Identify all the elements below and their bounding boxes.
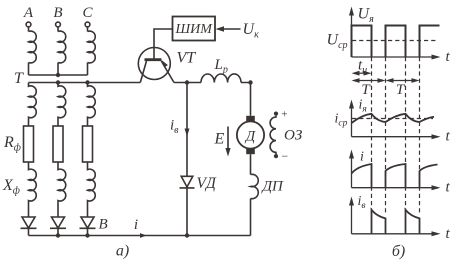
resistor Rf phase C xyxy=(83,126,93,162)
wire terminal B to primary winding xyxy=(57,27,59,32)
label Uk xyxy=(243,21,260,41)
inductor Lp xyxy=(201,74,241,83)
svg-text:В: В xyxy=(99,216,108,232)
svg-text:iв: iв xyxy=(358,194,366,211)
transistor VT xyxy=(138,48,174,83)
plot1 t label xyxy=(446,49,451,65)
svg-text:T: T xyxy=(396,82,406,98)
plot2 horizontal axis arrow xyxy=(432,134,441,139)
transformer T primary winding phase C xyxy=(88,31,96,63)
wire secondary bus to transistor xyxy=(29,82,141,84)
svg-text:Uср: Uср xyxy=(327,32,348,52)
plot3 horizontal axis xyxy=(352,187,435,189)
period T measure arrow 1 xyxy=(352,78,386,83)
plot2 vertical axis arrow xyxy=(349,100,354,109)
plot1 Uya axis label xyxy=(358,6,375,26)
node A label xyxy=(23,5,34,21)
plot1 horizontal axis t xyxy=(352,56,435,58)
svg-text:i: i xyxy=(360,150,364,165)
svg-text:Uк: Uк xyxy=(243,21,260,41)
terminal B xyxy=(56,22,61,27)
svg-text:Д: Д xyxy=(244,129,256,145)
wire terminal A to primary winding xyxy=(28,27,30,32)
svg-text:Uя: Uя xyxy=(358,6,375,26)
label VD xyxy=(197,175,217,192)
plot1 Usr dashed level xyxy=(352,40,436,42)
field winding OZ plus terminal xyxy=(274,109,288,121)
inductor Xf label xyxy=(2,177,20,197)
svg-text:t: t xyxy=(446,49,451,65)
wire Lp to motor xyxy=(241,83,251,116)
transformer T secondary winding phase B xyxy=(58,83,66,127)
plot3 current pulse 3 xyxy=(420,165,438,188)
terminal A xyxy=(26,22,31,27)
svg-text:T: T xyxy=(361,82,371,98)
control input Uk arrow xyxy=(216,26,241,32)
rectifier B label xyxy=(99,216,108,232)
plot1 square wave xyxy=(352,26,440,58)
plot2 iya axis label xyxy=(359,98,367,115)
label b) xyxy=(392,243,405,260)
junction primary bus phase B xyxy=(56,73,60,77)
junction freewheel node xyxy=(185,80,189,84)
plot3 i axis label xyxy=(360,150,364,165)
plot1 vertical axis xyxy=(351,13,353,57)
transformer T label xyxy=(14,70,24,87)
svg-text:а): а) xyxy=(116,243,129,260)
inductor Xf phase A xyxy=(29,162,37,217)
transformer T primary winding phase A xyxy=(29,31,37,63)
plot4 iv axis label xyxy=(358,194,366,211)
plot4 vertical axis xyxy=(351,203,353,234)
plot1 vertical axis arrow xyxy=(349,7,354,16)
svg-text:iв: iв xyxy=(170,118,179,137)
rectifier diode phase B xyxy=(50,217,66,236)
motor D top brush xyxy=(246,116,255,122)
node C label xyxy=(82,5,93,21)
label OZ xyxy=(284,128,303,144)
ti measure arrows xyxy=(352,71,372,76)
label a) xyxy=(116,243,129,260)
rectifier diode phase A xyxy=(21,217,37,236)
plot3 current pulse 1 xyxy=(352,164,372,188)
commutating winding DP xyxy=(251,174,259,198)
svg-text:VД: VД xyxy=(197,175,217,192)
wire transistor emitter to motor branch xyxy=(174,82,201,84)
wire PWM box to transistor base xyxy=(154,29,173,59)
transformer T secondary winding phase A xyxy=(29,83,37,127)
plot1 horizontal axis arrow xyxy=(432,55,441,60)
resistor Rf label xyxy=(3,134,21,154)
plot3 vertical axis xyxy=(351,156,353,188)
wire bottom bus xyxy=(29,235,251,237)
period T measure arrow 2 xyxy=(386,78,420,83)
wire DP to bottom bus xyxy=(250,199,252,236)
svg-text:t: t xyxy=(446,226,451,242)
plot4 horizontal axis xyxy=(352,233,435,235)
inductor Xf phase B xyxy=(58,162,66,217)
svg-text:VT: VT xyxy=(177,50,197,67)
label isr xyxy=(335,111,348,128)
label Usr xyxy=(327,32,348,52)
junction motor branch top xyxy=(248,80,252,84)
svg-text:t: t xyxy=(446,129,451,145)
PWM controller box ШИМ xyxy=(173,17,216,41)
svg-text:T: T xyxy=(14,70,24,87)
plot2 isr dashed level xyxy=(352,118,433,120)
plot3 t label xyxy=(446,180,451,196)
plot4 vertical axis arrow xyxy=(349,197,354,206)
label DP xyxy=(261,179,285,195)
dashed timing line 3 xyxy=(405,57,407,213)
plot2 horizontal axis xyxy=(352,136,435,138)
wire primary A to star bus xyxy=(28,63,30,76)
svg-text:б): б) xyxy=(392,243,405,260)
wire motor to DP winding xyxy=(250,154,252,174)
junction bottom bus phase C xyxy=(85,233,89,237)
resistor Rf phase B xyxy=(53,126,63,162)
transformer T primary winding phase B xyxy=(58,31,66,63)
field winding OZ xyxy=(270,116,276,154)
junction secondary bus phase B xyxy=(56,80,60,84)
node B label xyxy=(53,5,62,21)
label T second xyxy=(396,82,406,98)
svg-text:+: + xyxy=(281,109,288,121)
label Lp xyxy=(214,57,228,76)
svg-text:ШИМ: ШИМ xyxy=(175,22,214,37)
svg-text:i: i xyxy=(134,217,138,233)
wire primary B to star bus xyxy=(57,63,59,76)
svg-text:E: E xyxy=(214,131,225,148)
dashed timing line 4 xyxy=(419,57,421,213)
dashed timing line 1 xyxy=(371,57,373,213)
svg-text:Xф: Xф xyxy=(2,177,20,197)
motor D bottom brush xyxy=(246,149,255,155)
transformer T secondary winding phase C xyxy=(88,83,96,127)
plot3 horizontal axis arrow xyxy=(432,185,441,190)
svg-text:−: − xyxy=(281,149,289,163)
plot3 vertical axis arrow xyxy=(349,150,354,159)
inductor Xf phase C xyxy=(88,162,96,217)
label VT xyxy=(177,50,197,67)
EMF E label and arrow xyxy=(214,127,231,157)
label ti xyxy=(358,58,367,77)
svg-text:iя: iя xyxy=(359,98,367,115)
plot4 t label xyxy=(446,226,451,242)
plot4 freewheel current pulse 2 xyxy=(406,210,420,234)
resistor Rf phase A xyxy=(24,126,34,162)
wire terminal C to primary winding xyxy=(87,27,89,32)
wire freewheel branch vertical xyxy=(186,83,188,236)
plot2 vertical axis xyxy=(351,106,353,137)
junction bottom bus phase B xyxy=(56,233,60,237)
junction secondary bus phase C xyxy=(85,80,89,84)
svg-text:ДП: ДП xyxy=(261,179,285,195)
svg-text:B: B xyxy=(53,5,62,21)
plot3 current pulse 2 xyxy=(386,164,406,188)
svg-text:ОЗ: ОЗ xyxy=(284,128,303,144)
current i arrow on bottom bus xyxy=(134,217,147,238)
plot2 t label xyxy=(446,129,451,145)
svg-text:C: C xyxy=(82,5,93,21)
dashed timing line 2 xyxy=(385,57,387,213)
plot4 freewheel current pulse 1 xyxy=(372,210,386,234)
label T first xyxy=(361,82,371,98)
current iv label and arrow xyxy=(170,118,190,137)
wire primary star bus xyxy=(29,74,88,76)
plot2 armature current ripple curve xyxy=(352,114,435,123)
rectifier diode phase C xyxy=(80,217,96,236)
field winding OZ minus terminal xyxy=(274,149,289,163)
terminal C xyxy=(85,22,90,27)
motor D xyxy=(237,121,264,148)
freewheel diode VD xyxy=(180,176,195,188)
svg-text:t: t xyxy=(446,180,451,196)
svg-text:Rф: Rф xyxy=(3,134,21,154)
plot4 horizontal axis arrow xyxy=(432,231,441,236)
svg-text:iср: iср xyxy=(335,111,348,128)
svg-text:A: A xyxy=(23,5,34,21)
wire primary C to star bus xyxy=(87,63,89,76)
svg-text:Lр: Lр xyxy=(214,57,228,76)
junction bottom bus freewheel branch xyxy=(185,233,189,237)
